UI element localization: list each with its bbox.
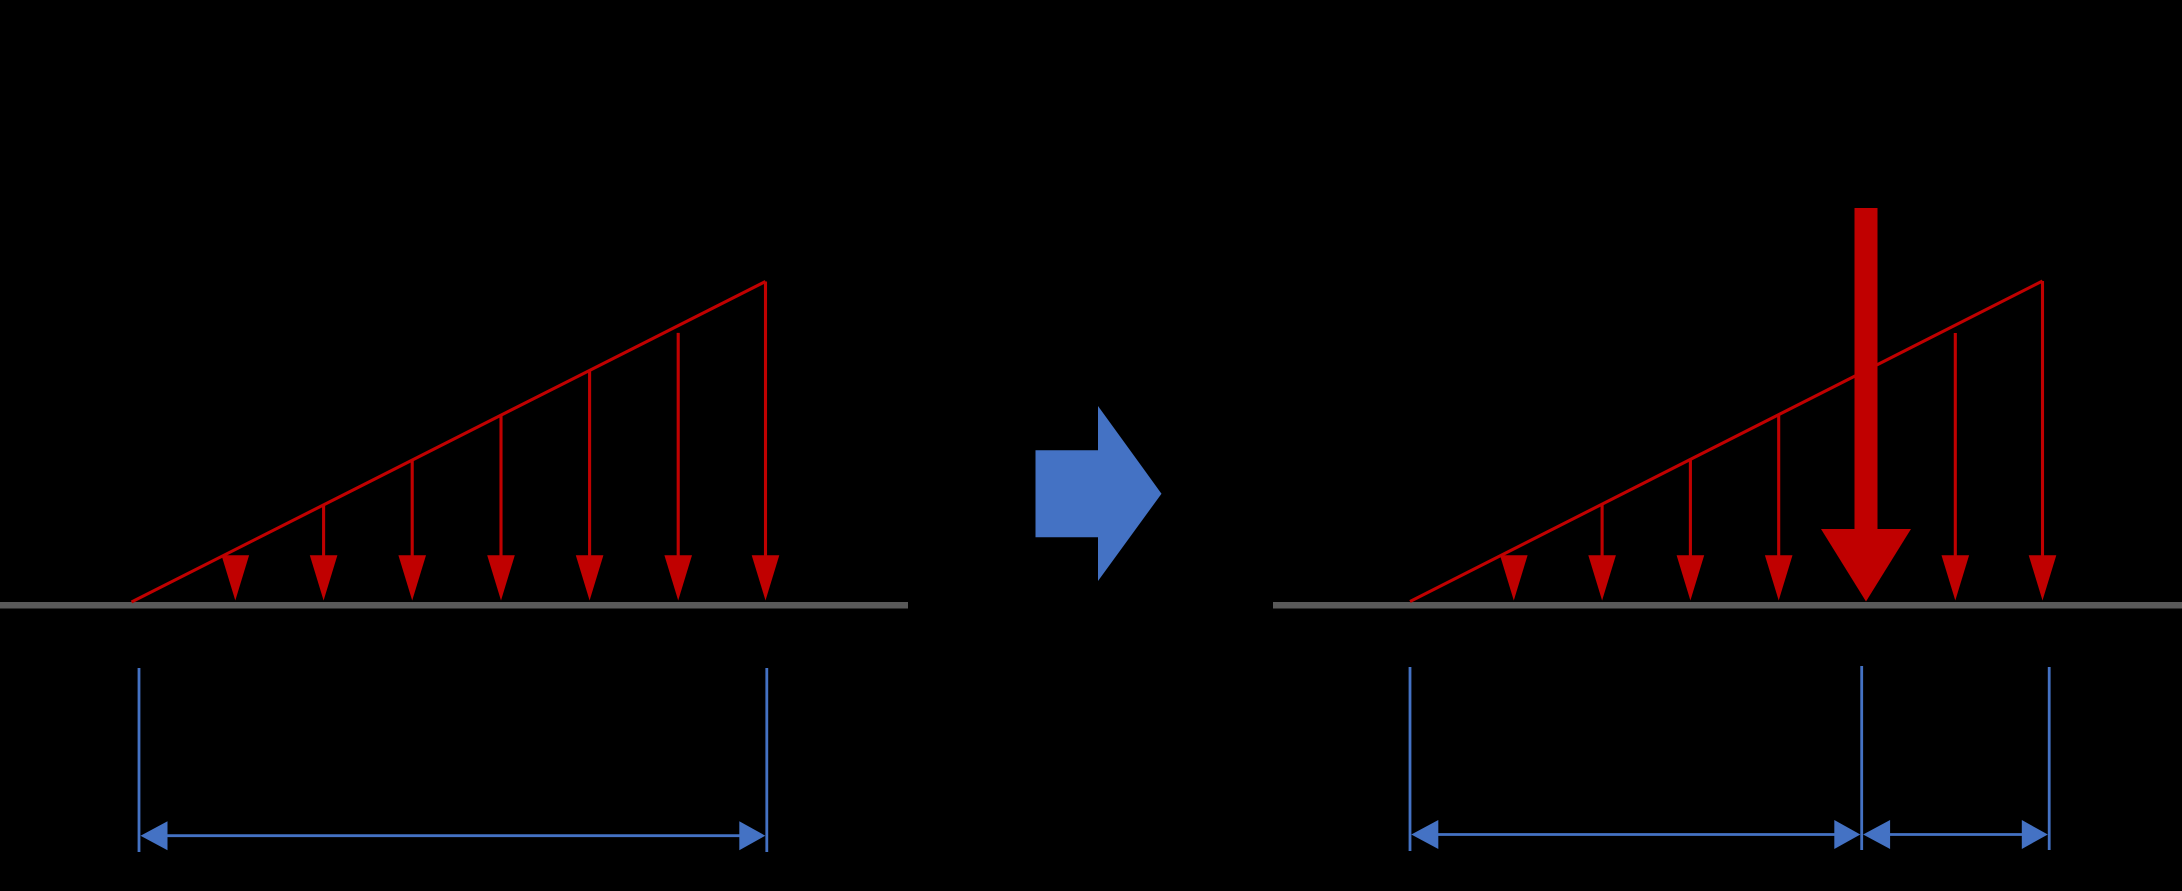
left beam (ground line) <box>0 602 908 609</box>
right load arrow 3 <box>1677 459 1705 600</box>
left load arrow 2 <box>310 505 338 601</box>
left load triangle hypotenuse <box>132 282 766 603</box>
right load arrow 6 (at apex) <box>2029 281 2057 601</box>
left dimension extension line (right) <box>765 668 768 852</box>
left load arrow 1 <box>222 555 250 600</box>
right dimension line segment 1 with outward arrowheads <box>1411 820 1860 849</box>
left dimension extension line (left) <box>138 668 141 852</box>
left load arrow 3 <box>398 460 426 600</box>
left dimension line with outward arrowheads <box>141 821 766 850</box>
left load arrow 6 <box>664 333 692 601</box>
right dimension extension line (right) <box>2048 667 2051 850</box>
left load arrow 7 (at apex) <box>752 282 780 601</box>
resultant force big red arrow <box>1821 208 1911 602</box>
right load arrow 1 <box>1500 555 1528 600</box>
right load arrow 5 <box>1942 333 1970 601</box>
right load arrow 2 <box>1588 504 1616 600</box>
right load triangle hypotenuse <box>1410 281 2043 602</box>
right dimension extension line (left) <box>1409 667 1412 851</box>
right beam (ground line) <box>1273 602 2182 609</box>
right dimension extension line (middle) <box>1860 666 1863 850</box>
right dimension line segment 2 with outward arrowheads <box>1863 820 2048 849</box>
left load arrow 5 <box>576 370 604 600</box>
left load arrow 4 <box>487 415 515 600</box>
big blue transform arrow <box>1036 406 1162 581</box>
right load arrow 4 <box>1765 415 1793 601</box>
